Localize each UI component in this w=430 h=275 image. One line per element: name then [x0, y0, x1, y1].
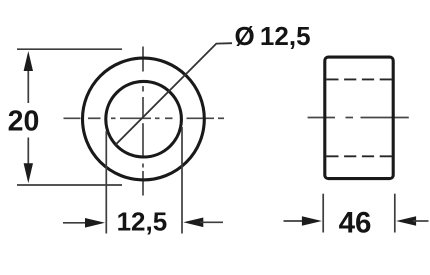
inner circle (hole D12.5) — [106, 81, 182, 157]
dim 12,5: right extension line — [181, 127, 183, 234]
dim 20: bottom extension line — [17, 184, 122, 186]
dim 12,5: right arrow shaft — [200, 221, 223, 223]
front view: vertical centerline — [142, 47, 144, 196]
dim 12,5: left arrow shaft — [63, 222, 88, 224]
side view: body rectangle — [325, 57, 393, 179]
outer circle (ring outside, D20) — [82, 58, 204, 180]
dim 12,5: left arrowhead — [85, 218, 105, 228]
dim 20: dimension line upper segment — [27, 62, 29, 103]
dim 20: dimension line lower segment — [27, 138, 29, 168]
dim 46: left arrowhead — [302, 216, 322, 226]
svg-text:46: 46 — [339, 206, 372, 239]
dim 20: upper arrowhead — [24, 51, 33, 71]
dim 12,5: right arrowhead — [183, 218, 203, 228]
svg-text:20: 20 — [8, 105, 40, 137]
svg-text:Ø 12,5: Ø 12,5 — [235, 21, 311, 51]
side view: axis centerline — [308, 117, 409, 119]
side view: upper hidden line (hole) — [326, 78, 392, 80]
dim 46: right arrowhead — [396, 216, 416, 226]
dim 46: right extension line — [394, 194, 396, 233]
leader line for diameter callout — [116, 43, 233, 145]
dim 46: left extension line — [322, 194, 324, 233]
dim 12,5: left extension line — [105, 131, 107, 234]
front view: horizontal centerline — [64, 117, 225, 119]
dim 46: left arrow shaft — [284, 220, 306, 222]
svg-text:12,5: 12,5 — [117, 207, 168, 237]
side view: lower hidden line (hole) — [326, 155, 392, 157]
dim 20: lower arrowhead — [24, 163, 33, 183]
dim 20: top extension line — [17, 48, 122, 50]
dim 46: right arrow shaft — [413, 220, 429, 222]
